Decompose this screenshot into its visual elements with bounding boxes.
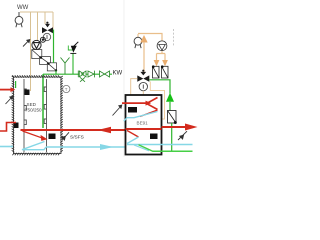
pump under right valve bbox=[139, 82, 147, 90]
wire green KW manifold bbox=[43, 73, 112, 75]
red chevron upper in boiler bbox=[147, 98, 158, 110]
flow arrow symbol left wall bbox=[6, 96, 13, 104]
frame boundary faint bbox=[123, 0, 125, 157]
red boiler feed arrow bbox=[122, 101, 151, 106]
cyan diag lower boiler bbox=[127, 137, 139, 144]
sensor on boiler left bbox=[128, 107, 137, 113]
cyan diagonal in boiler bbox=[124, 112, 158, 122]
heat exchanger cascade box 3 bbox=[47, 63, 56, 71]
wire tan B to pump bbox=[37, 12, 39, 41]
shutoff valve bbox=[100, 71, 110, 77]
consumer box 2 bbox=[161, 65, 168, 78]
cascade junction nodes bbox=[40, 57, 57, 72]
wire tan valve left elbow bbox=[131, 79, 138, 95]
red return jog bottom left bbox=[0, 123, 16, 132]
flow arrow symbol right bbox=[178, 131, 187, 140]
tank inner wall left bbox=[24, 79, 26, 153]
safety valve SV bbox=[68, 42, 78, 74]
sensor S1 on tank bbox=[25, 90, 30, 96]
red diagonal in boiler bbox=[140, 110, 158, 117]
drain funnel bbox=[61, 58, 70, 75]
wire green riser lower bbox=[171, 123, 173, 151]
red boiler outlet line bbox=[162, 126, 188, 128]
temperature indicator circle bbox=[63, 85, 70, 92]
red diag lower boiler bbox=[127, 131, 139, 138]
vent tick on tank wall bbox=[15, 81, 17, 88]
svg-text:BE91: BE91 bbox=[137, 120, 149, 125]
consumer box 1 bbox=[152, 65, 159, 78]
orange down arrows bbox=[154, 60, 168, 66]
heat exchanger cascade box 2 bbox=[40, 57, 51, 65]
regulator valve on riser bbox=[168, 111, 177, 125]
wire green cascade to manifold bbox=[55, 71, 57, 75]
svg-text:S/SFS: S/SFS bbox=[70, 134, 84, 140]
red diagonal in tank bbox=[23, 131, 48, 141]
valve 3-way left bbox=[42, 22, 53, 34]
cyan inlet stub left bbox=[0, 146, 13, 148]
wire green from valve down to exchanger bbox=[53, 30, 55, 63]
red inlet arrow top left bbox=[0, 87, 15, 92]
red tank-boiler line bbox=[21, 129, 126, 131]
cyan return line right bbox=[162, 144, 193, 146]
sensor S2 on tank bbox=[14, 123, 19, 129]
svg-text:SED: SED bbox=[27, 102, 37, 107]
wire orange branch to valve bbox=[143, 42, 145, 72]
cyan diag companion bbox=[134, 145, 149, 151]
sensor in boiler bottom bbox=[150, 134, 158, 140]
wire orange pump to consumers bbox=[157, 51, 166, 60]
green line right bbox=[153, 150, 193, 152]
red boiler line inside bbox=[126, 128, 162, 130]
label WW right bbox=[137, 34, 139, 38]
wire orange WW header right bbox=[138, 34, 162, 41]
flow arrow symbol boiler inlet bbox=[113, 105, 122, 116]
red outlet arrow bbox=[185, 124, 198, 131]
boiler BE91 box bbox=[126, 95, 162, 155]
dashed reference line bbox=[173, 29, 175, 47]
wire tan C to valve top bbox=[44, 12, 46, 24]
sensor S3 in tank bbox=[49, 134, 56, 140]
drain valve with cap bbox=[78, 71, 86, 82]
pump circulation right bbox=[157, 41, 167, 51]
svg-text:T: T bbox=[65, 87, 68, 92]
cyan coil in tank bbox=[22, 142, 46, 150]
cyan tank-boiler line bbox=[46, 146, 126, 148]
flow arrow symbol at S/SFS bbox=[62, 132, 69, 140]
wire green riser bbox=[169, 102, 171, 111]
wire green valve to riser bbox=[149, 80, 170, 94]
valve 3-way right bbox=[137, 70, 149, 82]
svg-text:WW: WW bbox=[17, 5, 29, 11]
tap WW right bbox=[134, 37, 142, 48]
flow arrow symbol near pump bbox=[23, 40, 30, 47]
orange up arrow bbox=[140, 35, 147, 43]
tank SED 750/250 outer insulated wall bbox=[12, 75, 63, 155]
heat exchanger cascade box 1 bbox=[32, 50, 42, 59]
wire green into tank bbox=[42, 74, 44, 128]
svg-text:750/250: 750/250 bbox=[25, 107, 42, 112]
green up arrow bbox=[166, 93, 174, 102]
wire tan pump to boiler bbox=[142, 91, 144, 95]
green diag in boiler bbox=[139, 145, 154, 152]
wire tan A to tank bbox=[30, 12, 32, 91]
wire tan loop right of valve bbox=[150, 82, 164, 120]
cyan flow arrow to boiler bbox=[100, 144, 114, 150]
tap WW left bbox=[15, 12, 23, 27]
cyan boiler bottom line bbox=[127, 144, 162, 146]
wire tan D to valve right bbox=[52, 12, 54, 29]
tank inner wall right bbox=[44, 79, 46, 153]
check valve bbox=[88, 71, 95, 78]
red flow arrow to tank bbox=[98, 127, 112, 133]
svg-text:KW: KW bbox=[113, 71, 123, 77]
pump P1 bbox=[32, 37, 46, 49]
node below pump bbox=[34, 50, 37, 53]
sensor circle under valve bbox=[43, 33, 50, 40]
wire WW header line bbox=[20, 11, 53, 13]
